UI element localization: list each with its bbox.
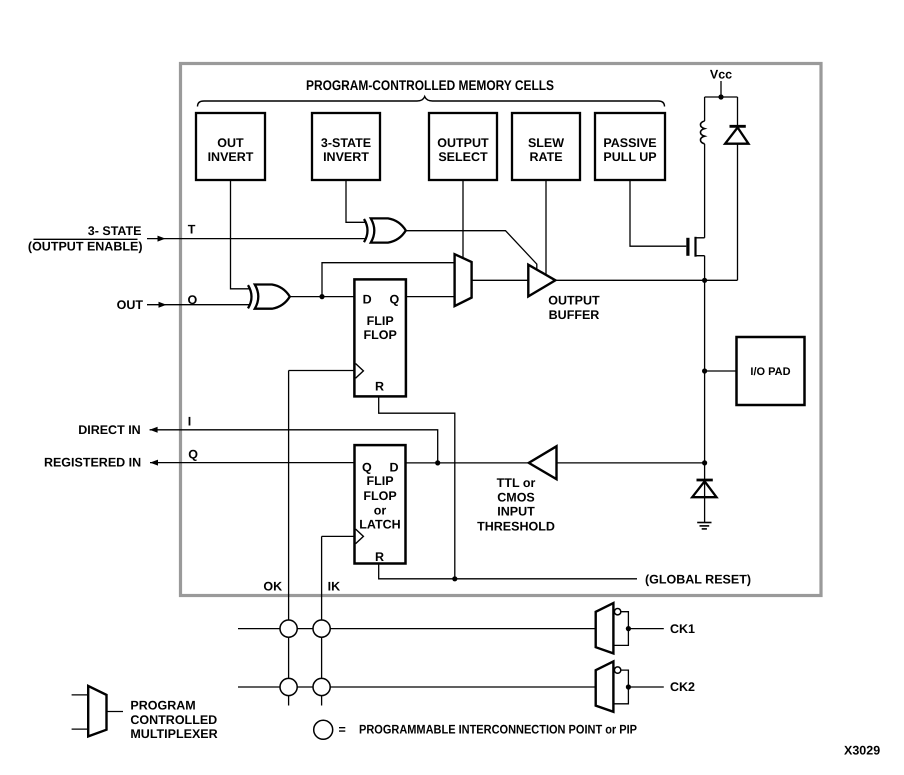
svg-text:I/O PAD: I/O PAD	[750, 366, 790, 378]
wire OUTPUT SELECT to mux	[462, 180, 464, 258]
svg-text:BUFFER: BUFFER	[549, 308, 600, 322]
svg-text:PASSIVE: PASSIVE	[603, 136, 656, 150]
node XOR1 output junction	[319, 294, 324, 299]
wire SLEW RATE to buffer	[545, 180, 547, 274]
svg-text:I: I	[188, 414, 191, 428]
PIP circle OK/CK1	[280, 620, 297, 637]
svg-text:OUTPUT: OUTPUT	[548, 294, 600, 308]
svg-text:INVERT: INVERT	[208, 150, 254, 164]
multiplexer output select	[455, 254, 472, 306]
svg-text:CMOS: CMOS	[497, 491, 535, 505]
svg-text:MULTIPLEXER: MULTIPLEXER	[130, 727, 217, 741]
wire T input line	[34, 236, 365, 242]
wire FF2 R to global reset	[379, 564, 637, 579]
svg-text:SELECT: SELECT	[438, 150, 488, 164]
wire XOR to output buffer enable	[406, 231, 537, 271]
wire OUT INVERT to XOR	[231, 180, 251, 289]
multiplexer CK1	[596, 603, 664, 653]
node FF2 D junction	[435, 460, 440, 465]
wire buffer output to pad net	[555, 279, 737, 281]
wire node to mux top input	[322, 263, 455, 297]
svg-text:O: O	[188, 293, 198, 307]
wire IK clock to FF2	[322, 535, 355, 537]
svg-text:OUT: OUT	[217, 136, 244, 150]
svg-text:OUTPUT: OUTPUT	[437, 136, 489, 150]
svg-text:(GLOBAL RESET): (GLOBAL RESET)	[645, 573, 751, 587]
wire input buffer to FF2 D	[405, 462, 528, 464]
svg-text:CK2: CK2	[670, 680, 695, 694]
svg-text:CONTROLLED: CONTROLLED	[130, 713, 217, 727]
wire pad to input buffer	[557, 462, 705, 464]
wire OK vertical	[288, 371, 290, 706]
svg-text:INPUT: INPUT	[497, 505, 535, 519]
svg-text:THRESHOLD: THRESHOLD	[477, 519, 555, 533]
memory cell SLEW RATE	[512, 113, 580, 180]
svg-text:IK: IK	[328, 580, 341, 594]
wire to I/O pad	[705, 370, 737, 372]
svg-text:FLOP: FLOP	[363, 489, 396, 503]
node Vcc junction	[718, 94, 723, 99]
svg-text:T: T	[188, 223, 196, 237]
flip-flop FF2 (flip flop or latch)	[355, 445, 406, 564]
svg-text:Q: Q	[362, 461, 372, 475]
ground	[697, 523, 711, 529]
memory cell OUTPUT SELECT	[429, 113, 497, 180]
XOR gate U2 (3-state invert)	[364, 218, 406, 242]
node global reset junction	[452, 576, 457, 581]
memory cell 3-STATE INVERT	[312, 113, 380, 180]
flip-flop FF1	[354, 279, 406, 396]
memory cell PASSIVE PULL UP	[595, 113, 665, 180]
svg-text:SLEW: SLEW	[528, 136, 564, 150]
legend PIP circle	[314, 720, 333, 739]
svg-text:R: R	[375, 550, 384, 564]
svg-text:LATCH: LATCH	[359, 518, 400, 532]
svg-text:INVERT: INVERT	[323, 150, 369, 164]
svg-text:3- STATE: 3- STATE	[88, 224, 142, 238]
svg-text:OUT: OUT	[117, 298, 144, 312]
resistor pull-up	[700, 97, 704, 238]
svg-text:FLIP: FLIP	[367, 314, 394, 328]
legend multiplexer symbol	[72, 686, 123, 737]
wire OK clock to FF1	[289, 370, 355, 372]
I/O PAD box	[737, 337, 805, 405]
node I/O pad junction	[702, 368, 707, 373]
multiplexer CK2	[596, 661, 664, 711]
svg-text:TTL or: TTL or	[497, 476, 536, 490]
PIP circle IK/CK2	[313, 678, 330, 695]
wire CK2 line	[238, 686, 596, 688]
wire PASSIVE PULL UP to transistor gate	[630, 180, 686, 246]
wire FF1 Q to mux	[406, 296, 455, 298]
memory cell OUT INVERT	[196, 113, 265, 180]
svg-text:Q: Q	[390, 293, 400, 307]
svg-text:REGISTERED IN: REGISTERED IN	[44, 456, 141, 470]
svg-text:CK1: CK1	[670, 622, 695, 636]
wire DIRECT IN	[150, 427, 438, 463]
svg-text:FLIP: FLIP	[366, 474, 393, 488]
input buffer triangle (TTL/CMOS)	[529, 446, 557, 479]
svg-text:DIRECT IN: DIRECT IN	[78, 423, 141, 437]
svg-text:PROGRAM: PROGRAM	[130, 699, 195, 713]
wire Vcc rail	[705, 96, 738, 98]
wire FF1 R to global reset	[379, 396, 455, 578]
svg-text:R: R	[375, 380, 384, 394]
diode to ground	[692, 480, 716, 523]
svg-text:D: D	[363, 293, 372, 307]
wire Vcc stub	[720, 81, 722, 97]
output buffer triangle	[528, 265, 555, 297]
svg-text:X3029: X3029	[844, 744, 880, 758]
svg-text:PROGRAM-CONTROLLED MEMORY CELL: PROGRAM-CONTROLLED MEMORY CELLS	[306, 77, 554, 93]
wire IK vertical	[321, 536, 323, 705]
svg-text:or: or	[374, 504, 387, 518]
brace over memory cells	[198, 97, 665, 107]
wire 3-STATE INVERT to XOR	[346, 180, 366, 222]
wire REGISTERED IN	[150, 460, 355, 466]
wire pad vertical	[704, 280, 706, 497]
IOB outer boundary box	[181, 64, 822, 596]
svg-text:RATE: RATE	[529, 150, 562, 164]
svg-text:Q: Q	[188, 448, 198, 462]
svg-text:(OUTPUT ENABLE): (OUTPUT ENABLE)	[28, 240, 143, 254]
transistor pull-up MOSFET	[686, 237, 704, 280]
diode to Vcc	[725, 97, 748, 280]
node pad net top	[702, 278, 707, 283]
svg-text:3-STATE: 3-STATE	[321, 136, 371, 150]
svg-text:Vcc: Vcc	[710, 68, 732, 82]
wire mux to output buffer	[472, 279, 529, 281]
svg-text:OK: OK	[263, 580, 282, 594]
wire CK1 line	[238, 628, 596, 630]
svg-text:D: D	[390, 461, 399, 475]
wire OUT input line	[147, 302, 250, 308]
node pad input junction	[702, 460, 707, 465]
svg-text:PULL UP: PULL UP	[603, 150, 656, 164]
PIP circle OK/CK2	[280, 678, 297, 695]
svg-text:PROGRAMMABLE INTERCONNECTION P: PROGRAMMABLE INTERCONNECTION POINT or PI…	[359, 723, 637, 737]
svg-text:FLOP: FLOP	[364, 328, 397, 342]
wire XOR1 output to FF1 D	[290, 296, 355, 298]
svg-text:=: =	[339, 723, 346, 737]
XOR gate U1 (out invert)	[248, 285, 290, 309]
PIP circle IK/CK1	[313, 620, 330, 637]
